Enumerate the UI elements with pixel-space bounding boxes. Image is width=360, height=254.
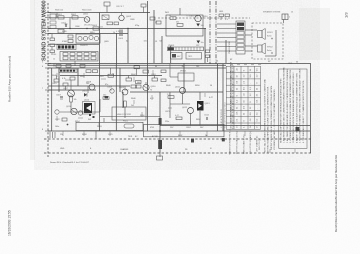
- wire top rail: [48, 12, 150, 14]
- capacitor C613: [58, 29, 64, 33]
- wire mid rail lower: [48, 64, 226, 66]
- solder blob at x223: [222, 138, 225, 141]
- wire dashed bottom 1: [44, 138, 312, 140]
- wire speaker return: [265, 30, 276, 56]
- table voltage chart grid: [226, 66, 260, 129]
- table cell values: [236, 67, 258, 128]
- notes text lines: [280, 66, 305, 143]
- transistor Q606: [94, 36, 98, 40]
- wire bottom rail: [48, 130, 310, 132]
- wire rail E: [48, 85, 130, 87]
- resistor R626: [175, 115, 182, 119]
- wire vertical K: [183, 63, 185, 92]
- table column headers below grid: [228, 129, 261, 155]
- wire rail F: [130, 91, 223, 93]
- wire vertical N: [161, 36, 163, 63]
- transistor Q611: [175, 87, 186, 94]
- scattered reference labels: [52, 11, 293, 151]
- svg-text:Drawn W.S. Checked R.J. Iss.: Drawn W.S. Checked R.J. Iss.2 10-6-97: [50, 161, 89, 164]
- transistor Q607: [63, 80, 74, 97]
- wire harness to speakers: [217, 24, 257, 51]
- row index strip left of table: [224, 103, 226, 128]
- capacitor C607: [56, 95, 63, 100]
- resistor R603: [92, 25, 99, 30]
- caption lines right of table: [263, 79, 276, 153]
- wire vertical M: [116, 33, 118, 64]
- speaker SP601: [258, 29, 274, 40]
- speaker dashed box: [252, 23, 283, 59]
- left border pin labels: [42, 10, 43, 132]
- parts top left of loop: [141, 4, 161, 24]
- mid center cluster: bias network: [161, 64, 194, 82]
- wire chassis divider 2: [215, 1, 217, 64]
- transistor Q616: [143, 82, 157, 91]
- left border stub ticks: [45, 13, 52, 132]
- wire vertical F: [51, 68, 53, 131]
- transistor Q614: [66, 106, 83, 115]
- wire vertical C: [217, 64, 219, 131]
- wire rail B: [48, 28, 206, 30]
- wire mid rail: [48, 63, 310, 65]
- wire vertical J: [159, 92, 161, 153]
- connector CN601 top right: [282, 14, 288, 23]
- resistor network row: [60, 52, 98, 62]
- power transistor Q613 dark package: [197, 101, 210, 111]
- IC driver box: [76, 34, 100, 47]
- resistor R613 vertical: [124, 101, 127, 107]
- capacitor C630: [55, 110, 69, 126]
- resistor pair mid: [136, 81, 142, 89]
- wire top stubs: [106, 6, 108, 13]
- resistor R601: [57, 14, 64, 19]
- wire vertical Q: [170, 46, 172, 63]
- wire vertical L: [204, 28, 206, 63]
- resistor R620: [169, 15, 176, 20]
- wire rail E2: [48, 89, 96, 91]
- dash marks above table: [230, 64, 261, 66]
- resistor R611 vertical: [70, 96, 77, 102]
- wire vertical M0: [99, 13, 101, 132]
- wire vertical H: [77, 68, 79, 86]
- wire rail C: [48, 33, 128, 35]
- wire vertical E: [127, 28, 129, 63]
- extra parts left mid: [54, 66, 158, 90]
- transistor Q609: [119, 86, 128, 95]
- connector CN604 dark dash strip: [59, 69, 77, 72]
- notes box frame: [279, 69, 307, 148]
- pin labels CN602: [229, 41, 231, 54]
- scan noise overlay: [0, 0, 1, 1]
- crystal X601 box: [102, 15, 109, 20]
- bus bar harness: [168, 47, 204, 51]
- wire vertical B: [153, 10, 155, 63]
- wire rail G: [160, 125, 310, 127]
- transistor Q605: [89, 35, 93, 39]
- parts on divider column: [206, 50, 210, 62]
- wire rail D: [48, 67, 226, 69]
- relay box RY601: [171, 53, 183, 60]
- wire vertical G: [58, 68, 60, 92]
- capacitor C612: [204, 115, 210, 121]
- speaker SP602: [258, 43, 274, 54]
- power transistor Q615 dark package: [83, 100, 96, 119]
- wire left dashed border: [47, 3, 49, 157]
- wire stubs scattered: [57, 70, 295, 153]
- capacitor C601: [61, 23, 68, 28]
- capacitor C603 with dark body: [118, 30, 124, 40]
- solder blob under box: [191, 139, 194, 143]
- wire net mid-left: [60, 86, 160, 118]
- scan shading left margin: [30, 0, 35, 160]
- wire vertical D: [222, 64, 224, 131]
- wire input branch: [52, 13, 84, 29]
- junction stack on x=160: [157, 118, 163, 160]
- wire vertical P: [122, 92, 124, 108]
- wire vertical I: [119, 68, 121, 92]
- wire loop top center: [158, 8, 250, 36]
- capacitor C610 tantalum dark: [196, 24, 203, 28]
- resistor R612: [103, 95, 109, 100]
- wire vertical R: [225, 40, 227, 63]
- left column parts: [50, 34, 55, 56]
- capacitor C611 tantalum dark: [197, 41, 204, 45]
- wire dashed bottom 2: [44, 152, 312, 154]
- transistor Q610: [195, 15, 209, 21]
- fuse F601: [123, 121, 134, 129]
- resistor pair left of driver box: [68, 35, 73, 43]
- capacitor C620 above rail: [104, 2, 110, 6]
- transistor Q608: [86, 82, 95, 90]
- wire vertical main: [147, 1, 149, 131]
- transistor Q612: [182, 107, 194, 114]
- wire center net: [170, 92, 200, 126]
- wire chassis divider 1: [209, 1, 211, 64]
- transistor Q601: [83, 14, 92, 27]
- transistor Q604: [83, 36, 87, 40]
- tick marks bottom left: [50, 132, 55, 138]
- regulator box: [186, 53, 202, 60]
- component row on mid rail: [54, 61, 85, 67]
- scan blur filter: [0, 0, 1, 1]
- heatsink box: [112, 107, 146, 120]
- resistor R604: [107, 22, 119, 25]
- wire right border: [310, 63, 312, 153]
- wire vertical O: [115, 64, 117, 132]
- resistor R602: [71, 14, 78, 19]
- solder blob: [105, 96, 109, 99]
- wire rail D2: [60, 75, 162, 77]
- wire rail C2: [48, 43, 99, 45]
- wire bottom box: [76, 118, 224, 157]
- scan shading patch right of schematic: [299, 8, 330, 60]
- resistor R621: [176, 22, 183, 27]
- resistor pair below rail D: [86, 68, 132, 81]
- node marks on rail B: [69, 28, 128, 29]
- diode D601: [82, 91, 88, 97]
- net number labels: [110, 41, 298, 92]
- resistor R625: [167, 94, 174, 98]
- connector CN603 dark pin strip: [57, 45, 76, 50]
- capacitor C608 electrolytic: [107, 87, 114, 94]
- table row header texts: [230, 61, 235, 129]
- transistor Q602: [119, 13, 132, 21]
- parts right of divider top: [219, 14, 230, 20]
- solder blob right end: [296, 127, 300, 131]
- connector block top left: [50, 14, 56, 28]
- connector CN602 pin stack: [236, 21, 245, 54]
- transistor Q603: [78, 36, 82, 40]
